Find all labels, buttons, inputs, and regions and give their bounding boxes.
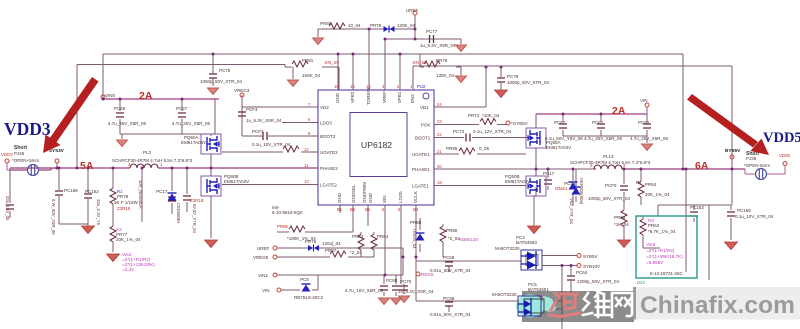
svg-text:PR75: PR75 <box>436 58 448 63</box>
svg-text:VD05: VD05 <box>779 153 791 158</box>
svg-text:21: 21 <box>437 149 442 154</box>
svg-text:UGATE1: UGATE1 <box>412 152 430 157</box>
svg-text:VIN0: VIN0 <box>105 93 116 98</box>
svg-text:1000p_50V_XTR_04: 1000p_50V_XTR_04 <box>588 196 631 201</box>
svg-text:6-13-18721-26C: 6-13-18721-26C <box>650 271 684 276</box>
svg-text:UP6182: UP6182 <box>361 140 392 150</box>
svg-text:VFB2: VFB2 <box>350 91 355 103</box>
svg-text:130K_04: 130K_04 <box>436 73 455 78</box>
svg-text:VIN1: VIN1 <box>258 273 269 278</box>
svg-text:RB751S-40C2: RB751S-40C2 <box>294 295 324 300</box>
svg-text:*OPEN+5mm: *OPEN+5mm <box>12 158 39 163</box>
svg-text:20K_1%_04: 20K_1%_04 <box>116 237 141 242</box>
svg-text:PHASE2: PHASE2 <box>320 166 338 171</box>
svg-text:PL13: PL13 <box>603 154 614 159</box>
svg-text:PC27: PC27 <box>176 106 188 111</box>
svg-text:14: 14 <box>366 84 371 89</box>
svg-text:PCF4: PCF4 <box>246 107 258 112</box>
svg-text:UREF: UREF <box>406 8 419 13</box>
svg-text:*GYB5V: *GYB5V <box>511 121 528 126</box>
svg-text:B5: B5 <box>365 207 371 212</box>
svg-text:6-10-5616-5Q0: 6-10-5616-5Q0 <box>272 210 303 215</box>
svg-text:PC17: PC17 <box>543 171 555 176</box>
svg-text:M-BOT3230: M-BOT3230 <box>495 246 520 251</box>
svg-text:EM61TA03V: EM61TA03V <box>505 179 530 184</box>
svg-text:15: 15 <box>350 84 355 89</box>
svg-text:PC59: PC59 <box>443 255 455 260</box>
svg-text:PJ26: PJ26 <box>14 151 25 156</box>
svg-text:PC60: PC60 <box>638 120 650 125</box>
svg-text:SYB10V: SYB10V <box>583 264 600 269</box>
svg-text:VIN: VIN <box>382 195 387 203</box>
svg-text:1u_6.3V_X5R_04: 1u_6.3V_X5R_04 <box>398 289 434 294</box>
svg-text:PC163: PC163 <box>690 205 704 210</box>
svg-text:PC77: PC77 <box>426 29 438 34</box>
svg-text:IZM21: IZM21 <box>555 186 568 191</box>
svg-text:PC8: PC8 <box>300 277 309 282</box>
svg-text:PCF9: PCF9 <box>605 183 617 188</box>
svg-text:EM61TA03V: EM61TA03V <box>224 179 249 184</box>
svg-text:EN_3V: EN_3V <box>325 60 339 65</box>
svg-text:120K_04: 120K_04 <box>397 23 416 28</box>
svg-text:CEEM68H: CEEM68H <box>176 203 181 223</box>
svg-text:V5Z_X7R_04: V5Z_X7R_04 <box>569 198 574 224</box>
svg-text:20: 20 <box>437 164 442 169</box>
svg-text:Chinafix.com: Chinafix.com <box>640 292 795 319</box>
svg-text:UGATE2: UGATE2 <box>320 150 338 155</box>
svg-text:BOOT2: BOOT2 <box>320 134 336 139</box>
svg-text:16: 16 <box>334 84 339 89</box>
svg-text:PC17: PC17 <box>156 189 168 194</box>
svg-text:13: 13 <box>304 179 309 184</box>
svg-text:2A: 2A <box>139 90 153 102</box>
svg-text:VIN: VIN <box>262 288 270 293</box>
svg-text:VREG5: VREG5 <box>253 255 269 260</box>
svg-text:R1: R1 <box>636 180 642 185</box>
svg-text:PR88: PR88 <box>410 220 422 225</box>
svg-text:20K_1%_04: 20K_1%_04 <box>645 192 670 197</box>
svg-text:GNDPWM: GNDPWM <box>362 182 367 203</box>
svg-text:PL3: PL3 <box>143 150 152 155</box>
svg-text:1u_6.3V_X5R_04: 1u_6.3V_X5R_04 <box>420 43 456 48</box>
svg-text:LDO3: LDO3 <box>320 121 332 126</box>
svg-text:12: 12 <box>304 147 309 152</box>
svg-text:150K_04: 150K_04 <box>302 73 321 78</box>
svg-text:EM61TA03V: EM61TA03V <box>546 145 571 150</box>
svg-text:PHASE1: PHASE1 <box>412 167 430 172</box>
svg-text:=2*(1+36K/18.7K): =2*(1+36K/18.7K) <box>646 254 683 259</box>
svg-text:PC165: PC165 <box>737 208 751 213</box>
svg-text:PR6a: PR6a <box>614 215 626 220</box>
svg-text:PC62: PC62 <box>554 120 566 125</box>
svg-text:*10K_04: *10K_04 <box>482 113 500 118</box>
svg-text:0.1u_10V_XTR_04: 0.1u_10V_XTR_04 <box>735 214 774 219</box>
svg-text:19: 19 <box>437 180 442 185</box>
svg-text:PRT8: PRT8 <box>370 23 382 28</box>
svg-text:VIN: VIN <box>640 98 648 103</box>
svg-text:VFB1: VFB1 <box>397 91 402 103</box>
svg-text:PC73: PC73 <box>453 129 465 134</box>
svg-text:PRT2: PRT2 <box>468 113 480 118</box>
svg-text:VREF: VREF <box>382 91 387 103</box>
svg-text:PJ36: PJ36 <box>746 156 757 161</box>
svg-text:B6: B6 <box>350 207 356 212</box>
svg-text:VD1: VD1 <box>420 105 429 110</box>
svg-text:30V_NE5500A: 30V_NE5500A <box>138 180 143 209</box>
svg-text:PR85: PR85 <box>277 224 289 229</box>
svg-text:Z3R1B: Z3R1B <box>190 198 204 203</box>
svg-text:PC26: PC26 <box>114 106 126 111</box>
svg-text:TOREF1: TOREF1 <box>366 87 371 105</box>
svg-text:0.01u_50V_X7R_04: 0.01u_50V_X7R_04 <box>430 312 471 317</box>
svg-text:0.01u_50V_X7R_04: 0.01u_50V_X7R_04 <box>430 268 471 273</box>
svg-text:=2*(1+R1/R2): =2*(1+R1/R2) <box>646 248 675 253</box>
svg-text:PC16: PC16 <box>564 181 576 186</box>
svg-text:Z3R18: Z3R18 <box>117 206 131 211</box>
svg-text:VD2: VD2 <box>320 105 329 110</box>
svg-text:5A: 5A <box>80 160 94 172</box>
svg-text:GNDSEL: GNDSEL <box>351 184 356 203</box>
svg-text:D23: D23 <box>637 280 645 285</box>
svg-text:SCHPCF30-4R7M 4.7uH 5.5A 7.3*6: SCHPCF30-4R7M 4.7uH 5.5A 7.3*6.8*3 <box>570 160 651 165</box>
svg-text:2200p_50V_XTR_04: 2200p_50V_XTR_04 <box>577 279 620 284</box>
svg-text:=3.3V: =3.3V <box>122 267 135 272</box>
svg-text:BOOT1: BOOT1 <box>415 136 431 141</box>
svg-text:EN2: EN2 <box>410 94 415 103</box>
svg-text:0.1u_12V_XTR_04: 0.1u_12V_XTR_04 <box>473 129 512 134</box>
svg-text:SYB5V: SYB5V <box>583 254 598 259</box>
svg-text:PC168: PC168 <box>64 188 78 193</box>
svg-text:PU2: PU2 <box>417 84 426 89</box>
svg-text:PC58: PC58 <box>443 296 455 301</box>
svg-text:PR81: PR81 <box>302 58 314 63</box>
svg-text:PC70: PC70 <box>400 279 412 284</box>
svg-text:PC75: PC75 <box>219 68 231 73</box>
svg-text:VDD3: VDD3 <box>4 119 51 139</box>
svg-text:1u_6.3V_X5R_04: 1u_6.3V_X5R_04 <box>246 118 282 123</box>
svg-text:Vout: Vout <box>646 242 656 247</box>
svg-text:24: 24 <box>437 102 442 107</box>
svg-text:KB90125: KB90125 <box>459 237 478 242</box>
svg-text:BYB5V: BYB5V <box>725 148 741 153</box>
svg-text:4.7u_25V_X5R_06: 4.7u_25V_X5R_06 <box>584 136 623 141</box>
svg-text:PR89: PR89 <box>446 228 458 233</box>
svg-text:*2_04: *2_04 <box>350 250 362 255</box>
svg-text:4.7u_16V_X5R_05: 4.7u_16V_X5R_05 <box>345 288 384 293</box>
svg-text:BA3V_X7R_04: BA3V_X7R_04 <box>192 204 197 234</box>
svg-text:33u_6.3V_Y5: 33u_6.3V_Y5 <box>96 199 101 226</box>
svg-text:*OPEN-5mm: *OPEN-5mm <box>744 163 770 168</box>
svg-text:1000p_50V_XTR_04: 1000p_50V_XTR_04 <box>507 80 550 85</box>
svg-text:PC61: PC61 <box>592 120 604 125</box>
svg-text:4.7u_25V_X5R_06: 4.7u_25V_X5R_06 <box>630 136 669 141</box>
svg-text:HER806(806): HER806(806) <box>579 178 584 205</box>
svg-text:PR83: PR83 <box>352 234 364 239</box>
svg-text:GND: GND <box>337 192 342 203</box>
svg-text:120u|_04: 120u|_04 <box>322 241 341 246</box>
svg-text:POK: POK <box>421 123 431 128</box>
svg-text:2A: 2A <box>612 105 626 117</box>
svg-text:GND: GND <box>335 92 340 103</box>
svg-text:PR80: PR80 <box>320 21 332 26</box>
svg-text:TR5V6_04: TR5V6_04 <box>412 228 417 249</box>
svg-text:3K F 1/16W: 3K F 1/16W <box>114 200 139 205</box>
svg-text:PR87: PR87 <box>325 248 337 253</box>
svg-text:10_04: 10_04 <box>348 23 361 28</box>
svg-text:=5.858V: =5.858V <box>646 260 664 265</box>
svg-text:EN_5V: EN_5V <box>413 60 427 65</box>
svg-text:8.W_80V_X0R_05: 8.W_80V_X0R_05 <box>51 199 56 235</box>
svg-text:*1K_04: *1K_04 <box>614 222 629 227</box>
svg-text:4.7u_25V_X5R_05: 4.7u_25V_X5R_05 <box>108 121 147 126</box>
svg-text:EM61TA03V: EM61TA03V <box>181 140 206 145</box>
svg-text:VCLK: VCLK <box>413 191 418 203</box>
svg-text:6A: 6A <box>695 160 709 172</box>
svg-text:LGATE1: LGATE1 <box>412 184 429 189</box>
svg-text:PR95: PR95 <box>446 146 458 151</box>
svg-text:UREF: UREF <box>257 246 270 251</box>
svg-text:SCHPCF30-4R7M 4.7uH 5.5A 7.3*6: SCHPCF30-4R7M 4.7uH 5.5A 7.3*6.8*3 <box>112 158 193 163</box>
svg-text:22: 22 <box>437 132 442 137</box>
svg-text:1000p_50V_XTR_04: 1000p_50V_XTR_04 <box>200 79 243 84</box>
svg-text:PC79: PC79 <box>507 74 519 79</box>
svg-text:11: 11 <box>304 163 309 168</box>
svg-text:PR62: PR62 <box>648 223 660 228</box>
svg-text:PR76: PR76 <box>305 239 317 244</box>
svg-text:VDD5: VDD5 <box>763 130 800 146</box>
svg-text:VREG3: VREG3 <box>234 88 250 93</box>
svg-text:PR64: PR64 <box>645 182 657 187</box>
svg-text:33u_16V_05: 33u_16V_05 <box>5 196 10 221</box>
svg-text:GND: GND <box>368 192 373 203</box>
svg-text:B4: B4 <box>413 207 419 212</box>
svg-text:PC88: PC88 <box>386 278 398 283</box>
svg-text:PR78: PR78 <box>117 194 129 199</box>
svg-text:0.1u_10V_XTR_04: 0.1u_10V_XTR_04 <box>252 142 291 147</box>
svg-text:VDD3: VDD3 <box>1 152 13 157</box>
svg-text:B1: B1 <box>337 207 343 212</box>
svg-text:PR84: PR84 <box>377 234 389 239</box>
svg-text:23: 23 <box>437 119 442 124</box>
svg-text:PC64: PC64 <box>576 270 588 275</box>
svg-text:BAT54683: BAT54683 <box>516 240 537 245</box>
svg-text:*8.7K_1%_04: *8.7K_1%_04 <box>648 229 676 234</box>
svg-text:LGATE2: LGATE2 <box>320 183 337 188</box>
svg-text:0_05: 0_05 <box>479 146 490 151</box>
svg-text:M-BOT3230: M-BOT3230 <box>492 292 517 297</box>
svg-text:PCF3: PCF3 <box>252 129 264 134</box>
svg-text:4.7u_25V_X5R_05: 4.7u_25V_X5R_05 <box>172 121 211 126</box>
svg-text:PC162: PC162 <box>85 189 99 194</box>
svg-text:LDO5: LDO5 <box>398 191 403 203</box>
